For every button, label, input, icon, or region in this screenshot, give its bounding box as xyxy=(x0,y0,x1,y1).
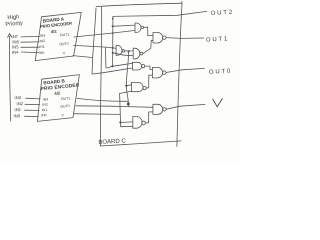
wire V113 to G1 upper input xyxy=(113,25,135,26)
svg-text:V: V xyxy=(61,113,64,117)
node IN6 label xyxy=(12,39,20,44)
node IN1 label xyxy=(14,107,22,112)
wire IN4 to board A xyxy=(22,51,39,54)
gate G11 bubble xyxy=(142,121,146,125)
node IN7 label xyxy=(11,34,19,39)
node junction V113 top xyxy=(112,18,114,20)
node OUT0 label xyxy=(209,69,232,76)
encoder U2 board B title xyxy=(40,78,80,96)
gate G4 NAND xyxy=(116,45,122,55)
gate G10 bubble xyxy=(163,108,166,111)
node junction V126 G8 tap xyxy=(125,85,127,87)
wire G4 output to G5 upper input xyxy=(125,50,134,52)
wire V119 bottom bend to G11 lower input xyxy=(121,125,133,127)
gate G2 bubble xyxy=(163,36,166,39)
wire G1 output to G2 upper input xyxy=(144,27,153,35)
node IN0 label xyxy=(13,113,21,118)
wire to G1 lower input xyxy=(113,30,135,33)
gate G1 bubble xyxy=(141,26,144,29)
wire net OUT2 vertical V113 xyxy=(112,16,114,66)
svg-text:OUT2: OUT2 xyxy=(211,10,234,17)
node junction V113 G1 tap xyxy=(112,25,114,27)
wire merge to G7 upper input xyxy=(113,63,133,66)
gate G5 bubble xyxy=(140,52,143,55)
wire V119 vertical xyxy=(120,94,121,127)
wire IN2 to board B xyxy=(25,103,40,105)
wire A-V from board A down left side xyxy=(73,56,92,58)
svg-text:OUT1: OUT1 xyxy=(61,96,71,101)
wire A-V vertical descent xyxy=(92,8,96,74)
wire IN7 to board A xyxy=(21,35,40,38)
wire G5 output up to G2 lower input xyxy=(143,40,153,53)
node IN4 label xyxy=(12,50,20,55)
gate G11 NAND xyxy=(133,116,142,128)
wire A-OUT1 from board A xyxy=(74,33,113,37)
svg-text:4/2: 4/2 xyxy=(51,29,58,35)
node OUT2 label xyxy=(211,10,234,17)
wire priority arrow shaft xyxy=(9,36,10,121)
wire IN5 to board A xyxy=(21,46,39,48)
wire G4-net vertical V126 xyxy=(126,51,128,104)
node V label xyxy=(213,99,223,107)
wire OUT2 top run xyxy=(113,11,207,16)
wire B-OUT0 bus to G10 upper input xyxy=(76,106,153,108)
node IN5 label xyxy=(12,44,20,49)
wire A-OUT0 to G4 upper input xyxy=(113,47,117,49)
svg-text:IN1: IN1 xyxy=(39,45,45,50)
node junction V113 lower tap xyxy=(112,52,114,54)
gate G10 NAND xyxy=(153,104,163,114)
svg-text:IN1: IN1 xyxy=(42,108,48,113)
encoder U1 board A outline xyxy=(35,12,81,60)
node priority arrowhead xyxy=(8,33,12,37)
svg-text:OUT1: OUT1 xyxy=(60,32,70,37)
svg-text:IN0: IN0 xyxy=(13,113,21,118)
node junction A-OUT0 on V113 xyxy=(112,47,114,49)
svg-text:IN3: IN3 xyxy=(40,33,46,38)
gate G2 NAND xyxy=(153,32,163,43)
board C outline bottom edge xyxy=(101,141,182,146)
encoder U1 board A input pin labels xyxy=(39,33,46,55)
svg-text:IN2: IN2 xyxy=(16,101,24,106)
wire B-V from board B xyxy=(74,113,120,116)
svg-text:IN3: IN3 xyxy=(14,95,22,100)
wire V126 tap to G8 upper input xyxy=(126,84,131,87)
encoder U2 board B output pin labels xyxy=(60,96,70,117)
gate G5 NAND xyxy=(133,48,140,59)
wire V113 tap to G4 lower input and G5 lower input xyxy=(113,53,134,56)
svg-text:IN1: IN1 xyxy=(14,107,22,112)
svg-text:OUT0: OUT0 xyxy=(60,104,70,109)
svg-text:IN3: IN3 xyxy=(43,97,49,102)
svg-text:IN2: IN2 xyxy=(42,102,48,107)
wire V119 top bend to G8 lower input xyxy=(120,91,132,93)
encoder U1 board A title xyxy=(40,16,73,34)
wire B-OUT1 from board B xyxy=(77,98,128,103)
svg-text:IN2: IN2 xyxy=(39,39,45,44)
board C outline top edge xyxy=(96,3,182,6)
gate G7 bubble xyxy=(142,65,145,68)
node junction A-OUT1 join xyxy=(112,32,114,34)
node High Priority label xyxy=(5,14,23,27)
gate G8 bubble xyxy=(143,86,146,89)
wire V output from G10 xyxy=(166,104,205,109)
encoder U2 board B outline xyxy=(37,75,79,122)
wire IN6 to board A xyxy=(21,41,39,43)
board C outline right edge xyxy=(177,1,182,146)
gate G4 bubble xyxy=(122,50,124,52)
wire IN0 to board B xyxy=(25,115,39,117)
wire G11 output up to G10 lower input xyxy=(145,112,153,123)
encoder U2 board B input pin labels xyxy=(41,97,49,117)
gate G8 NAND xyxy=(131,82,143,91)
board C outline left edge xyxy=(100,7,101,146)
gate G9 NAND xyxy=(152,67,162,78)
svg-text:OUT0: OUT0 xyxy=(209,69,232,76)
wire IN3 to board B xyxy=(26,97,41,100)
encoder U1 board A output pin labels xyxy=(59,32,69,55)
svg-text:V: V xyxy=(63,51,66,55)
wire V119 tap to G11 upper input xyxy=(120,121,132,124)
svg-text:4/2: 4/2 xyxy=(54,90,61,96)
wire V105 branch from A-OUT0 xyxy=(106,47,112,68)
gate G7 NAND xyxy=(132,62,141,70)
node junction V113 V105 merge xyxy=(111,65,113,67)
node IN3 label xyxy=(14,95,22,100)
wire IN1 to board B xyxy=(25,109,40,111)
node BOARD C label xyxy=(98,139,126,146)
svg-text:IN4: IN4 xyxy=(12,50,20,55)
svg-text:IN0: IN0 xyxy=(39,51,45,56)
wire A-OUT0 from board A xyxy=(74,45,113,48)
gate G9 bubble xyxy=(163,71,166,74)
node junction V119 G11 tap xyxy=(119,121,121,123)
node OUT1 label xyxy=(206,36,229,43)
svg-text:OUT0: OUT0 xyxy=(59,42,69,47)
svg-text:Priority: Priority xyxy=(5,21,23,28)
svg-text:OUT1: OUT1 xyxy=(206,36,229,43)
wire G8 output up to G9 lower input xyxy=(146,75,152,88)
wire OUT0 from G9 xyxy=(166,68,205,72)
node IN2 label xyxy=(16,101,24,106)
gate G1 NAND xyxy=(135,23,141,33)
wire G7 output to G9 upper input xyxy=(145,66,153,69)
wire blob stub to bus xyxy=(127,104,129,107)
node junction G4 output xyxy=(128,50,130,52)
wire OUT1 from G2 xyxy=(166,37,204,40)
wire A-V into G7 lower input xyxy=(92,68,132,74)
node junction blob B-OUT1 V126 xyxy=(127,103,130,106)
svg-text:IN0: IN0 xyxy=(41,113,47,118)
